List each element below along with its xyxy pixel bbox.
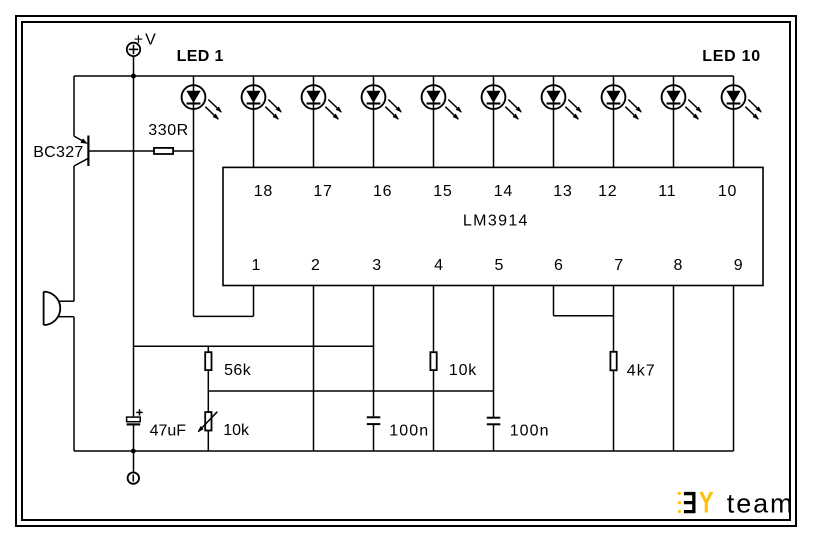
svg-text:14: 14 (494, 183, 513, 200)
pin label 17 (313, 183, 332, 200)
resistor R4 4k7 (610, 352, 616, 371)
pin label 13 (553, 183, 572, 200)
pin label 1 (252, 257, 261, 274)
wire pin7 top (613, 286, 615, 352)
pin label 18 (254, 183, 273, 200)
wire pin7 bottom (613, 370, 615, 451)
wire pin8 to ground rail (673, 286, 675, 452)
svg-text:56k: 56k (224, 362, 252, 379)
pin label 11 (658, 183, 676, 200)
label 330R (148, 122, 188, 139)
wire pin6 jog (554, 286, 614, 316)
pin label 12 (598, 183, 617, 200)
svg-text:BC327: BC327 (33, 144, 83, 161)
wire bottom rail (74, 450, 734, 452)
wire 56k top (207, 346, 209, 352)
svg-text:3: 3 (372, 257, 381, 274)
pin label 5 (495, 257, 504, 274)
svg-text:2: 2 (311, 257, 320, 274)
label +V (134, 32, 158, 49)
wire C1 bottom (373, 424, 375, 451)
label 56k (224, 362, 252, 379)
resistor R1 330R (154, 148, 173, 154)
wire top rail (74, 75, 734, 77)
svg-text:18: 18 (254, 183, 273, 200)
wire base (88, 150, 154, 152)
potentiometer P1 10k (198, 412, 217, 432)
pin label 15 (433, 183, 452, 200)
svg-text:10k: 10k (223, 422, 250, 439)
LED D3 (302, 76, 342, 167)
wire pin3 vertical (373, 286, 375, 417)
logo Y (699, 492, 713, 513)
LED D4 (362, 76, 402, 167)
wire B signal (208, 390, 493, 392)
svg-text:LM3914: LM3914 (463, 212, 529, 229)
svg-text:5: 5 (495, 257, 504, 274)
wire pin4 bottom (433, 370, 435, 451)
label LM3914 (463, 212, 529, 229)
wire C3 bottom (133, 426, 135, 473)
wire +V stem (133, 56, 135, 76)
wire collector (73, 166, 75, 301)
wire pot bottom (207, 431, 209, 452)
svg-text:team: team (727, 489, 795, 519)
svg-text:17: 17 (313, 183, 332, 200)
microphone MIC1 (44, 292, 74, 325)
svg-text:11: 11 (658, 183, 676, 200)
wire +V vertical (133, 76, 135, 416)
logo dots (678, 492, 681, 513)
wire 56k bottom (207, 370, 209, 391)
wire pin5 vertical (493, 286, 495, 418)
resistor R3 10k (430, 352, 436, 370)
svg-text:LED 10: LED 10 (702, 48, 761, 65)
label 4k7 (627, 362, 656, 379)
pin label 2 (311, 257, 320, 274)
capacitor C3 47uF (127, 409, 143, 424)
svg-text:8: 8 (674, 257, 683, 274)
capacitor C2 100n (487, 418, 501, 425)
capacitor C1 100n (367, 417, 381, 424)
LED D7 (542, 76, 582, 167)
label 10k (449, 362, 477, 379)
wire pin1 loop (194, 286, 254, 317)
svg-text:4k7: 4k7 (627, 362, 656, 379)
svg-text:330R: 330R (148, 122, 188, 139)
pin label 7 (614, 257, 623, 274)
wire A V+ feed (134, 345, 374, 347)
pin label 8 (674, 257, 683, 274)
svg-text:LED 1: LED 1 (177, 48, 224, 65)
wire pin9 to ground rail (733, 286, 735, 452)
pin label 14 (494, 183, 513, 200)
label 47uF (150, 423, 187, 440)
label C2 100n (510, 422, 550, 439)
label LED 10 (702, 48, 761, 65)
power terminal +V (127, 43, 140, 56)
resistor R2 56k (205, 352, 211, 370)
ground terminal 0V (128, 472, 139, 483)
label C1 100n (389, 422, 429, 439)
svg-text:10: 10 (718, 183, 737, 200)
LED D10 (722, 76, 762, 167)
svg-text:4: 4 (434, 257, 443, 274)
svg-text:10k: 10k (449, 362, 477, 379)
svg-text:16: 16 (373, 183, 392, 200)
pin label 9 (734, 257, 743, 274)
svg-text:47uF: 47uF (150, 423, 187, 440)
LED D9 (662, 76, 702, 167)
LED D2 (242, 76, 282, 167)
logo reversed E (684, 492, 696, 513)
LED D6 (482, 76, 522, 167)
svg-text:1: 1 (252, 257, 261, 274)
pin label 16 (373, 183, 392, 200)
svg-text:100n: 100n (389, 422, 429, 439)
wire pot top (207, 391, 209, 412)
op IC U1 LM3914 body (223, 167, 763, 285)
pin label 10 (718, 183, 737, 200)
transistor Q1 BC327 (74, 136, 88, 167)
LED D8 (602, 76, 642, 167)
wire 330R to LED1 (173, 150, 193, 152)
junction dot ground rail (131, 449, 136, 454)
wire mic to bottom rail (73, 317, 75, 451)
label LED 1 (177, 48, 224, 65)
label BC327 (33, 144, 83, 161)
pin label 6 (554, 257, 563, 274)
pin label 4 (434, 257, 443, 274)
LED D5 (422, 76, 462, 167)
svg-text:12: 12 (598, 183, 617, 200)
wire pin4 top (433, 286, 435, 353)
svg-text:100n: 100n (510, 422, 550, 439)
logo text team (727, 489, 795, 519)
LED D1 (182, 76, 222, 316)
wire emitter (73, 76, 75, 136)
label pot 10k (223, 422, 250, 439)
wire C2 bottom (493, 424, 495, 451)
pin label 3 (372, 257, 381, 274)
svg-text:9: 9 (734, 257, 743, 274)
svg-text:13: 13 (553, 183, 572, 200)
svg-text:6: 6 (554, 257, 563, 274)
svg-text:+V: +V (134, 32, 158, 49)
junction dot +V rail (131, 74, 136, 79)
svg-text:7: 7 (614, 257, 623, 274)
svg-text:15: 15 (433, 183, 452, 200)
wire pin2 to ground rail (313, 286, 315, 452)
